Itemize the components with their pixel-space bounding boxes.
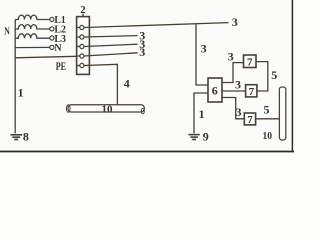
wire label-2 tick bbox=[82, 13, 84, 16]
svg-text:10: 10 bbox=[263, 130, 273, 142]
terminal circle L1 bbox=[50, 17, 54, 21]
svg-text:7: 7 bbox=[247, 56, 253, 68]
busbar end cap right bbox=[141, 109, 144, 114]
terminal 3 circle bbox=[80, 44, 84, 48]
svg-text:PE: PE bbox=[56, 61, 66, 73]
ground 9 bbox=[188, 135, 199, 140]
terminal 1 circle bbox=[80, 25, 84, 29]
svg-text:3: 3 bbox=[232, 15, 238, 29]
svg-text:3: 3 bbox=[139, 45, 145, 59]
terminal 4 circle bbox=[80, 54, 84, 58]
svg-text:6: 6 bbox=[212, 84, 218, 98]
terminal 2 stub bbox=[77, 36, 80, 38]
terminal 5 stub bbox=[77, 65, 80, 67]
wire 6 to 7#1 bbox=[222, 63, 244, 83]
svg-text:3: 3 bbox=[235, 77, 241, 91]
svg-text:4: 4 bbox=[124, 77, 130, 91]
terminal 4 stub bbox=[77, 55, 80, 57]
svg-text:10: 10 bbox=[102, 103, 114, 115]
svg-text:3: 3 bbox=[236, 105, 242, 119]
wire drop to unit 6 bbox=[196, 24, 208, 85]
busbar 10 horizontal bbox=[68, 105, 144, 112]
busbar 10 vertical bbox=[279, 87, 285, 140]
wire 4 riser bbox=[84, 64, 117, 104]
terminal 1 stub bbox=[77, 27, 80, 29]
terminal circle L3 bbox=[50, 36, 54, 40]
busbar end cap left bbox=[67, 105, 71, 113]
wire 7#3 to busbar bbox=[256, 118, 280, 120]
border bottom bbox=[0, 151, 294, 153]
svg-text:9: 9 bbox=[203, 130, 209, 144]
svg-text:5: 5 bbox=[271, 68, 277, 82]
svg-text:1: 1 bbox=[18, 85, 24, 99]
wire bracket 7#1 to 7#2 bbox=[256, 62, 268, 91]
inductor L3 bbox=[15, 34, 50, 38]
wire PE to terminal block bbox=[15, 56, 76, 58]
inductor L1 bbox=[15, 15, 50, 19]
box 7 #2 bbox=[246, 85, 257, 97]
svg-text:3: 3 bbox=[228, 50, 234, 64]
svg-text:3: 3 bbox=[201, 42, 207, 56]
svg-text:N: N bbox=[54, 42, 61, 54]
svg-text:5: 5 bbox=[264, 102, 270, 116]
box 7 #3 bbox=[244, 113, 255, 125]
wire 6 to ground bbox=[194, 93, 208, 133]
svg-text:7: 7 bbox=[249, 86, 255, 98]
svg-text:N: N bbox=[4, 26, 10, 37]
wire left PE bus bbox=[14, 20, 16, 134]
wire N branch bbox=[15, 46, 50, 48]
svg-text:7: 7 bbox=[247, 114, 253, 126]
inductor L2 bbox=[15, 25, 50, 29]
terminal 2 circle bbox=[80, 35, 84, 39]
wire circuit 3 row3 bbox=[84, 44, 138, 46]
box unit 6 bbox=[208, 78, 222, 102]
wire circuit 3 top long bbox=[84, 23, 229, 28]
svg-text:1: 1 bbox=[199, 107, 205, 121]
wire 6 to 7#3 bbox=[222, 98, 244, 119]
terminal 5 circle bbox=[80, 63, 84, 67]
terminal circle L2 bbox=[50, 27, 54, 31]
terminal circle N bbox=[50, 45, 54, 49]
wire circuit 3 row2 bbox=[84, 36, 138, 37]
wire circuit 3 row4 bbox=[84, 53, 138, 56]
wire 6 to 7#2 bbox=[222, 90, 246, 92]
border right bbox=[291, 0, 293, 152]
ground 8 bbox=[10, 135, 22, 140]
box 7 #1 bbox=[244, 55, 257, 68]
terminal 3 stub bbox=[77, 46, 80, 48]
terminal block 2 bbox=[77, 17, 90, 75]
svg-text:8: 8 bbox=[23, 130, 29, 144]
